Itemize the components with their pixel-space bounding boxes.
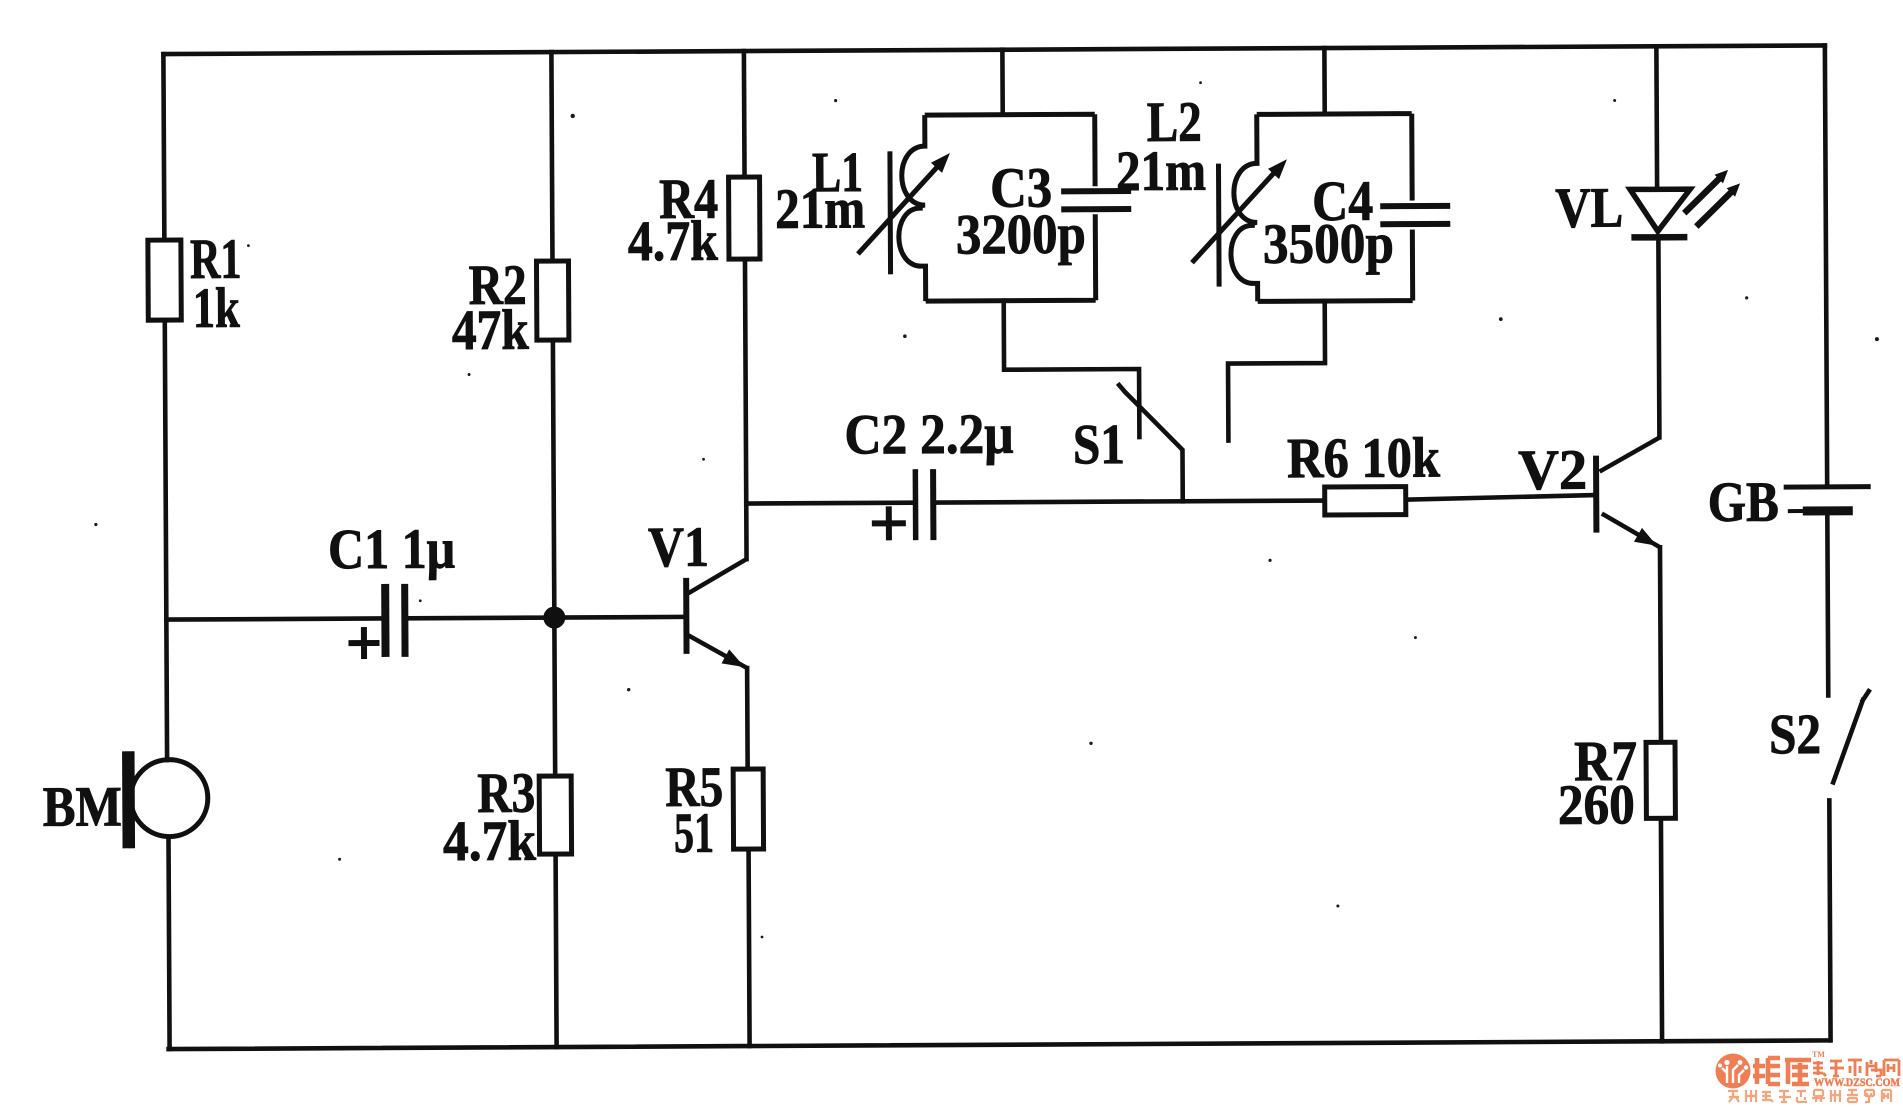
svg-text:R6 10k: R6 10k bbox=[1287, 426, 1441, 490]
svg-text:S2: S2 bbox=[1769, 703, 1821, 766]
svg-text:C1 1μ: C1 1μ bbox=[328, 518, 455, 582]
svg-text:V1: V1 bbox=[648, 516, 709, 579]
svg-text:21m: 21m bbox=[1116, 140, 1206, 203]
svg-text:S1: S1 bbox=[1073, 413, 1125, 476]
svg-text:4.7k: 4.7k bbox=[628, 210, 719, 273]
svg-text:260: 260 bbox=[1558, 773, 1635, 836]
svg-text:1k: 1k bbox=[193, 277, 241, 340]
svg-text:4.7k: 4.7k bbox=[443, 810, 537, 873]
svg-text:TM: TM bbox=[1812, 1050, 1825, 1059]
svg-text:47k: 47k bbox=[452, 299, 530, 362]
svg-text:C2 2.2μ: C2 2.2μ bbox=[844, 403, 1013, 467]
svg-text:51: 51 bbox=[674, 802, 714, 865]
svg-text:V2: V2 bbox=[1518, 439, 1587, 502]
svg-text:3500p: 3500p bbox=[1263, 212, 1394, 276]
svg-text:WWW.DZSC.COM: WWW.DZSC.COM bbox=[1814, 1077, 1900, 1089]
svg-text:VL: VL bbox=[1555, 176, 1623, 239]
svg-text:21m: 21m bbox=[775, 177, 865, 240]
svg-text:GB: GB bbox=[1708, 471, 1779, 534]
svg-text:BM: BM bbox=[43, 775, 122, 838]
svg-text:3200p: 3200p bbox=[956, 203, 1086, 267]
